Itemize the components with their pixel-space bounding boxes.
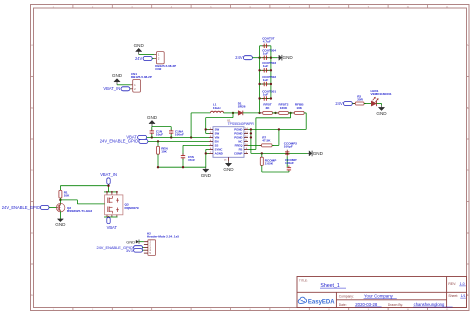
svg-text:GND: GND	[55, 222, 66, 227]
svg-text:20R: 20R	[357, 97, 363, 101]
svg-text:GND: GND	[313, 151, 324, 156]
svg-text:10K: 10K	[64, 193, 70, 197]
svg-text:VBAT_IN: VBAT_IN	[100, 172, 117, 177]
svg-text:1uF: 1uF	[263, 52, 269, 56]
svg-text:47nF: 47nF	[188, 158, 195, 162]
svg-text:chansheunglong: chansheunglong	[414, 302, 445, 307]
svg-text:VBAT_IN: VBAT_IN	[103, 86, 120, 91]
svg-text:100nF: 100nF	[175, 133, 184, 137]
svg-text:Drawn By:: Drawn By:	[388, 303, 403, 307]
svg-text:C: C	[31, 169, 33, 172]
svg-text:C: C	[467, 169, 469, 172]
svg-text:160K: 160K	[280, 106, 288, 110]
svg-text:10K: 10K	[161, 150, 167, 154]
svg-text:COMP: COMP	[234, 152, 243, 156]
svg-text:2020-03-28: 2020-03-28	[355, 302, 378, 307]
svg-text:10uF: 10uF	[156, 133, 163, 137]
svg-text:47.5K: 47.5K	[262, 139, 271, 143]
svg-text:Header-Male 2.54_1x5: Header-Male 2.54_1x5	[147, 235, 179, 239]
svg-text:24V: 24V	[135, 56, 143, 61]
svg-text:1uF: 1uF	[263, 64, 269, 68]
svg-text:BSS8025-T1-GE3: BSS8025-T1-GE3	[67, 209, 92, 213]
svg-text:VEMD1160X01: VEMD1160X01	[371, 92, 392, 96]
svg-text:GND: GND	[283, 55, 294, 60]
svg-text:4.7uF: 4.7uF	[263, 40, 271, 44]
svg-text:GND: GND	[134, 43, 145, 48]
svg-text:GND: GND	[376, 111, 387, 116]
svg-text:1/1: 1/1	[461, 294, 466, 298]
svg-text:10K: 10K	[296, 106, 302, 110]
svg-text:AGND: AGND	[215, 152, 223, 156]
svg-text:1.0: 1.0	[460, 282, 465, 286]
svg-text:Date:: Date:	[339, 303, 347, 307]
svg-text:2.05K: 2.05K	[265, 161, 274, 165]
svg-text:TITLE:: TITLE:	[299, 279, 308, 283]
svg-text:1uF: 1uF	[263, 92, 269, 96]
svg-text:Sheet:: Sheet:	[448, 294, 458, 298]
svg-text:GND: GND	[126, 240, 135, 245]
svg-text:DB125-5.08-2P: DB125-5.08-2P	[131, 75, 152, 79]
svg-text:GND: GND	[147, 115, 158, 120]
svg-text:REV:: REV:	[448, 282, 456, 286]
svg-text:100pF: 100pF	[284, 144, 293, 148]
svg-text:10uH: 10uH	[213, 106, 221, 110]
svg-text:VBAT: VBAT	[107, 225, 118, 230]
svg-text:RQM4079: RQM4079	[125, 206, 139, 210]
svg-text:D: D	[31, 232, 33, 235]
svg-text:CN2: CN2	[155, 67, 161, 71]
svg-text:Company:: Company:	[339, 295, 354, 299]
svg-text:3V3: 3V3	[126, 248, 133, 253]
svg-text:24V_ENABLE_GPIO: 24V_ENABLE_GPIO	[100, 139, 138, 144]
svg-text:D: D	[467, 232, 469, 235]
svg-text:100nF: 100nF	[285, 161, 294, 165]
svg-text:EasyEDA: EasyEDA	[308, 300, 335, 306]
svg-text:1uF: 1uF	[263, 78, 269, 82]
svg-text:GND: GND	[223, 167, 234, 172]
svg-text:24V_ENABLE_GPIO: 24V_ENABLE_GPIO	[2, 205, 40, 210]
svg-text:GND: GND	[112, 73, 123, 78]
svg-text:TPS55340PWPR: TPS55340PWPR	[228, 122, 255, 126]
svg-text:24V: 24V	[335, 101, 343, 106]
svg-text:24V: 24V	[235, 55, 243, 60]
svg-text:Your Company: Your Company	[364, 294, 394, 299]
svg-text:GND: GND	[201, 173, 212, 178]
svg-text:SR26: SR26	[238, 105, 246, 109]
